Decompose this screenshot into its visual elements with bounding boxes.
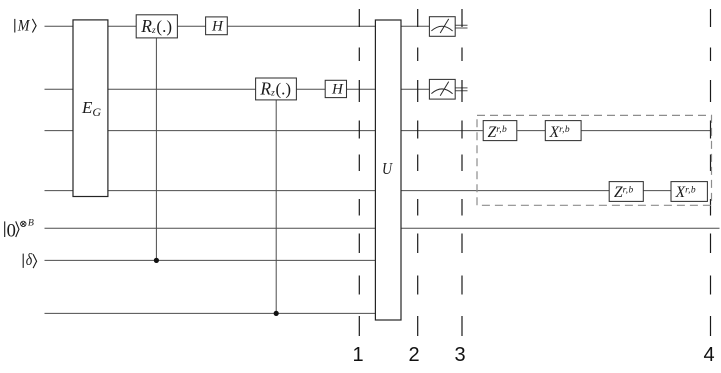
svg-text:H: H <box>211 18 224 34</box>
svg-text:3: 3 <box>454 344 465 366</box>
svg-text:Rz(.): Rz(.) <box>259 79 291 99</box>
svg-text:2: 2 <box>408 344 419 366</box>
svg-text:δ: δ <box>26 251 33 270</box>
svg-text:U: U <box>382 160 394 179</box>
svg-text:1: 1 <box>352 344 363 366</box>
svg-text:M: M <box>17 18 31 35</box>
svg-text:Rz(.): Rz(.) <box>140 16 172 36</box>
svg-text:H: H <box>331 81 344 97</box>
svg-text:0: 0 <box>7 222 16 242</box>
svg-text:B: B <box>28 217 34 228</box>
svg-text:4: 4 <box>703 344 714 366</box>
